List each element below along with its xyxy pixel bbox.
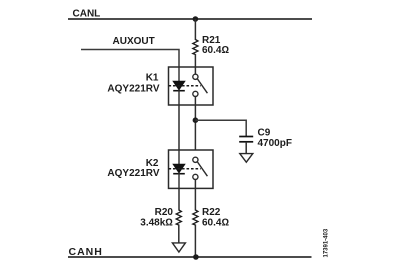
svg-text:R20: R20 (155, 207, 174, 218)
resistor R20 (176, 210, 181, 225)
svg-text:K1: K1 (146, 73, 159, 84)
switch contact bottom K2 (193, 174, 198, 179)
wire K2 switch bottom down (194, 180, 196, 189)
switch contact bottom K1 (193, 91, 198, 96)
junction on CANH (193, 254, 199, 260)
svg-text:AUXOUT: AUXOUT (113, 36, 155, 47)
LED cathode bar K2 (173, 173, 185, 175)
wire CANL junction to R21 (194, 19, 196, 40)
svg-text:60.4Ω: 60.4Ω (202, 45, 229, 56)
wire K1 LED cathode down (178, 90, 180, 106)
wire K2 switch to R22 (194, 188, 196, 210)
svg-text:AQY221RV: AQY221RV (107, 84, 159, 95)
wire K2 LED anode (178, 150, 180, 165)
ground under C9 (240, 154, 253, 163)
svg-text:CANL: CANL (73, 9, 101, 20)
svg-text:60.4Ω: 60.4Ω (202, 218, 229, 229)
coupling dashed line K1 (169, 85, 201, 87)
svg-text:17391-403: 17391-403 (324, 228, 330, 257)
svg-text:3.48kΩ: 3.48kΩ (140, 218, 173, 229)
wire R22 to CANH (194, 225, 196, 258)
relay K1 box (169, 67, 214, 105)
LED cathode bar K1 (173, 90, 185, 92)
coupling dashed line K2 (169, 168, 201, 170)
wire AUXOUT (81, 50, 179, 68)
svg-text:CANH: CANH (69, 246, 103, 258)
wire R21 to K1 switch (194, 54, 196, 74)
wire K1 LED to K2 LED (178, 105, 180, 150)
switch arm K2 (197, 162, 207, 176)
wire C9 to ground (245, 142, 247, 154)
wire K2 LED to R20 (178, 188, 180, 210)
wire K1 switch to K2 switch (194, 105, 196, 150)
svg-text:R22: R22 (202, 207, 221, 218)
relay K2 box (169, 150, 214, 188)
wire R20 to ground (178, 225, 180, 243)
resistor R21 (193, 40, 198, 55)
junction node to C9 (193, 117, 199, 123)
ground under R20 (172, 243, 185, 252)
junction on CANL (193, 16, 199, 22)
resistor R22 (193, 210, 198, 225)
svg-text:C9: C9 (258, 127, 271, 138)
wire K1 LED anode (178, 67, 180, 82)
svg-text:4700pF: 4700pF (258, 138, 292, 149)
LED diode K1 (173, 81, 185, 90)
wire CANH rail (68, 256, 312, 258)
wire junction to C9 (195, 120, 246, 136)
LED diode K2 (173, 164, 185, 173)
switch arm K1 (197, 79, 207, 93)
switch contact top K2 (193, 157, 198, 162)
capacitor C9 (239, 136, 253, 138)
wire CANL rail (68, 18, 312, 20)
svg-text:AQY221RV: AQY221RV (107, 168, 159, 179)
wire K2 LED cathode down (178, 173, 180, 189)
switch contact top K1 (193, 74, 198, 79)
wire K1 switch bottom down (194, 97, 196, 106)
